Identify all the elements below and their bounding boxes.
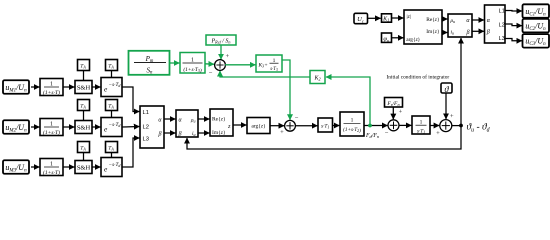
wire to sum2 bbox=[364, 125, 388, 127]
svg-text:iu: iu bbox=[451, 30, 455, 36]
K2 output wire to sum0 bbox=[220, 71, 310, 77]
svg-text:β: β bbox=[486, 30, 490, 36]
svg-text:β: β bbox=[158, 132, 162, 138]
theta initial condition box bbox=[441, 83, 452, 94]
svg-text:−: − bbox=[209, 70, 213, 77]
green wire sum0 to PI bbox=[225, 64, 255, 66]
svg-text:K2: K2 bbox=[313, 76, 320, 82]
lag block 1/(1+sT2) bbox=[340, 112, 364, 136]
wire bbox=[270, 125, 284, 127]
svg-text:L1: L1 bbox=[499, 9, 505, 15]
wire theta box to sum3 bbox=[445, 93, 447, 119]
green node dot on main line bbox=[368, 124, 372, 128]
sample time Ts box row3 b bbox=[106, 142, 118, 158]
svg-text:s·T3: s·T3 bbox=[270, 67, 278, 72]
svg-text:ρu: ρu bbox=[450, 18, 456, 24]
sample time Ts box row2 b bbox=[106, 100, 118, 118]
svg-text:Fs/Fn: Fs/Fn bbox=[386, 101, 399, 107]
filter 1/(1+sT) row3 bbox=[40, 159, 63, 176]
wire alpha bbox=[164, 118, 175, 120]
svg-text:arg{z}: arg{z} bbox=[251, 124, 266, 130]
delay e^-sTd row1 bbox=[101, 78, 122, 97]
svg-text:iu: iu bbox=[192, 131, 196, 137]
wire beta bbox=[164, 132, 175, 134]
wire sum2 to integrator bbox=[399, 124, 411, 126]
wire bbox=[333, 125, 340, 127]
svg-text:1: 1 bbox=[420, 120, 423, 126]
S&H row3 bbox=[75, 161, 92, 174]
K1 gain box bbox=[382, 14, 392, 23]
svg-text:+: + bbox=[225, 53, 229, 60]
green summing junction sum0 bbox=[215, 60, 226, 71]
K2 feedback from node bbox=[326, 77, 370, 126]
wire row3 to L3 bbox=[122, 138, 139, 167]
real-imag to complex block bbox=[210, 109, 233, 136]
wire L2 out bbox=[505, 24, 522, 26]
output port u_C3/U_n bbox=[523, 34, 550, 48]
svg-text:uM3/Un: uM3/Un bbox=[5, 163, 27, 174]
svg-text:−: − bbox=[385, 130, 389, 137]
sample time Ts box row1 a bbox=[78, 60, 90, 81]
derivative block s·T1 bbox=[318, 118, 333, 132]
wire bbox=[63, 86, 74, 88]
input port u_M2/U_n bbox=[3, 120, 29, 134]
sample time Ts box row2 a bbox=[78, 100, 90, 121]
wire bbox=[392, 17, 404, 19]
svg-text:+: + bbox=[399, 108, 403, 115]
wire bbox=[31, 86, 39, 88]
wire row1 to L1 bbox=[122, 87, 139, 112]
PI block K3 + 1/(sT3) bbox=[256, 55, 282, 72]
filter 1/(1+sT) row2 bbox=[40, 119, 63, 136]
svg-text:K3+: K3+ bbox=[258, 63, 269, 69]
wire bbox=[31, 166, 39, 168]
green wire Pref to sum0 bbox=[220, 45, 222, 59]
output port u_C1/U_n bbox=[523, 4, 550, 17]
wire L1 out bbox=[505, 10, 522, 13]
wire bbox=[63, 126, 74, 128]
wire Im bbox=[442, 32, 447, 34]
svg-text:L3: L3 bbox=[143, 137, 149, 143]
svg-text:1: 1 bbox=[50, 162, 53, 168]
svg-text:L2: L2 bbox=[499, 22, 505, 28]
sample time Ts box row1 b bbox=[106, 60, 118, 78]
wire bbox=[92, 166, 100, 168]
wire bbox=[368, 17, 381, 19]
wire L3 out bbox=[505, 39, 522, 41]
svg-text:−s·Td: −s·Td bbox=[109, 162, 122, 168]
main wire sum1 to sT1 bbox=[296, 125, 318, 127]
svg-text:Im{z}: Im{z} bbox=[212, 130, 226, 136]
svg-text:Initial condition of integrato: Initial condition of integrator bbox=[387, 73, 450, 80]
wire bbox=[63, 166, 74, 168]
svg-text:1: 1 bbox=[50, 122, 53, 128]
S&H row2 bbox=[75, 121, 92, 134]
svg-text:S&H: S&H bbox=[77, 125, 91, 132]
svg-text:1: 1 bbox=[191, 57, 194, 63]
svg-text:−s·Td: −s·Td bbox=[109, 122, 122, 128]
svg-text:K1: K1 bbox=[382, 16, 389, 22]
svg-text:S&H: S&H bbox=[77, 165, 91, 172]
svg-text:β: β bbox=[466, 30, 470, 36]
PI output wire down to sum1 bbox=[282, 60, 290, 120]
svg-text:S&H: S&H bbox=[77, 85, 91, 92]
svg-text:ϑu - ϑd: ϑu - ϑd bbox=[467, 123, 490, 134]
wire z bbox=[233, 124, 246, 126]
svg-text:Im{z}: Im{z} bbox=[426, 29, 440, 35]
phi_u constant box bbox=[382, 33, 392, 43]
wire F box to sum2 bbox=[392, 107, 394, 120]
alpha-beta to abc block bbox=[485, 5, 506, 43]
svg-text:(1+s·T): (1+s·T) bbox=[43, 129, 60, 136]
svg-text:s·T1: s·T1 bbox=[321, 124, 329, 130]
U_c constant box bbox=[354, 13, 368, 23]
svg-text:uC1/Un: uC1/Un bbox=[525, 7, 546, 18]
summing junction sum2 bbox=[388, 120, 399, 131]
wire integrator to sum3 bbox=[430, 125, 439, 127]
output node dot bbox=[459, 124, 463, 128]
F_s/F_n constant box bbox=[385, 98, 403, 108]
svg-text:1: 1 bbox=[351, 118, 354, 124]
arg(z) block bbox=[247, 118, 270, 134]
output port u_C2/U_n bbox=[523, 19, 550, 33]
P_Ref/S_n box bbox=[206, 35, 236, 45]
svg-text:|z|: |z| bbox=[407, 14, 411, 20]
svg-text:arg{z}: arg{z} bbox=[406, 37, 420, 43]
wire i_u bbox=[198, 132, 209, 134]
wire row2 to L2 bbox=[122, 126, 139, 129]
svg-text:(1+s·T): (1+s·T) bbox=[43, 169, 60, 176]
abc to alpha-beta block bbox=[140, 106, 164, 148]
svg-text:(1+s·T3): (1+s·T3) bbox=[183, 66, 202, 74]
feedback wire up to top transform bbox=[460, 38, 462, 126]
svg-text:uM2/Un: uM2/Un bbox=[5, 123, 27, 134]
green lag block 1/(1+sT3) bbox=[180, 53, 205, 75]
svg-text:s·T1: s·T1 bbox=[417, 128, 425, 134]
svg-text:Re{z}: Re{z} bbox=[426, 17, 440, 23]
svg-text:L3: L3 bbox=[499, 36, 505, 42]
delay e^-sTd row2 bbox=[101, 118, 122, 137]
wire bbox=[392, 37, 404, 39]
summing junction sum3 bbox=[440, 120, 452, 132]
wire bbox=[92, 86, 100, 88]
integrator 1/(sT1) bbox=[412, 116, 430, 134]
summing junction sum1 bbox=[285, 120, 296, 131]
svg-text:L2: L2 bbox=[143, 125, 149, 131]
P_m/S_n box bbox=[129, 51, 170, 76]
input port u_M3/U_n bbox=[3, 160, 29, 174]
svg-text:−: − bbox=[295, 115, 299, 122]
sample time Ts box row3 a bbox=[78, 142, 90, 161]
svg-text:+: + bbox=[280, 129, 284, 136]
svg-text:PRef / Sn: PRef / Sn bbox=[210, 39, 230, 45]
svg-text:uM1/Un: uM1/Un bbox=[5, 83, 27, 94]
wire alpha top bbox=[472, 19, 484, 21]
inverse rotating frame block (rho_u,i_u to alpha,beta) bbox=[448, 14, 472, 37]
wire Re bbox=[442, 18, 447, 20]
rotating frame transform block (alpha,beta to rho_u,i_u) bbox=[176, 110, 198, 138]
delay e^-sTd row3 bbox=[101, 158, 122, 177]
wire bbox=[92, 126, 100, 128]
input port u_M1/U_n bbox=[3, 80, 29, 94]
green wire to sum0 bbox=[205, 63, 214, 65]
polar to rectangular block bbox=[404, 10, 442, 44]
green wire bbox=[170, 62, 180, 64]
svg-text:1: 1 bbox=[50, 82, 53, 88]
svg-text:+: + bbox=[436, 130, 440, 137]
svg-text:−s·Td: −s·Td bbox=[109, 82, 122, 88]
feedback wire down and left to lower transform bbox=[187, 126, 461, 150]
svg-text:+: + bbox=[450, 113, 454, 120]
S&H row1 bbox=[75, 81, 92, 94]
wire bbox=[31, 126, 39, 128]
svg-text:(1+s·T): (1+s·T) bbox=[43, 89, 60, 96]
svg-text:L1: L1 bbox=[143, 110, 149, 116]
filter 1/(1+sT) row1 bbox=[40, 79, 63, 96]
wire sum3 to output node bbox=[452, 125, 461, 127]
svg-text:Re{z}: Re{z} bbox=[212, 116, 226, 122]
K2 gain box bbox=[310, 71, 325, 84]
svg-text:(1+s·T2): (1+s·T2) bbox=[343, 126, 361, 134]
svg-text:ρu: ρu bbox=[190, 118, 196, 124]
svg-text:β: β bbox=[178, 132, 182, 138]
svg-text:Fd/Fn: Fd/Fn bbox=[365, 133, 379, 139]
wire rho_u bbox=[198, 118, 209, 120]
wire beta top bbox=[472, 30, 484, 32]
